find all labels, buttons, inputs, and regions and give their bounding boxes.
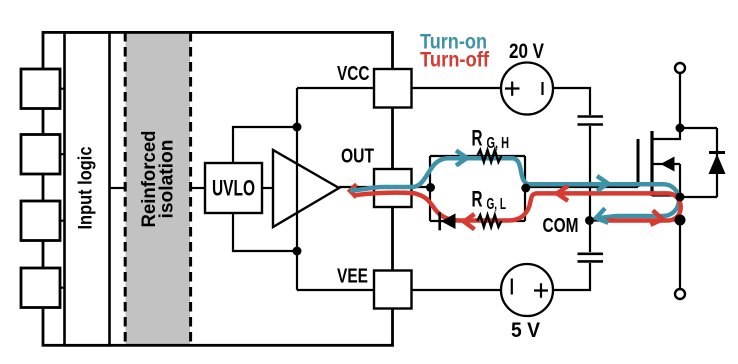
svg-text:OUT: OUT (341, 145, 374, 168)
svg-text:UVLO: UVLO (212, 176, 255, 201)
svg-text:VCC: VCC (337, 62, 370, 85)
svg-text:VEE: VEE (337, 265, 368, 288)
svg-text:COM: COM (543, 214, 579, 237)
svg-text:G, H: G, H (487, 135, 510, 152)
svg-text:Turn-off: Turn-off (420, 48, 490, 71)
svg-text:isolation: isolation (156, 140, 178, 219)
svg-text:20 V: 20 V (509, 40, 544, 63)
svg-text:G, L: G, L (487, 196, 507, 213)
svg-text:5 V: 5 V (511, 319, 540, 342)
svg-text:Input logic: Input logic (76, 146, 97, 229)
svg-text:R: R (472, 187, 483, 212)
svg-text:R: R (472, 125, 483, 150)
